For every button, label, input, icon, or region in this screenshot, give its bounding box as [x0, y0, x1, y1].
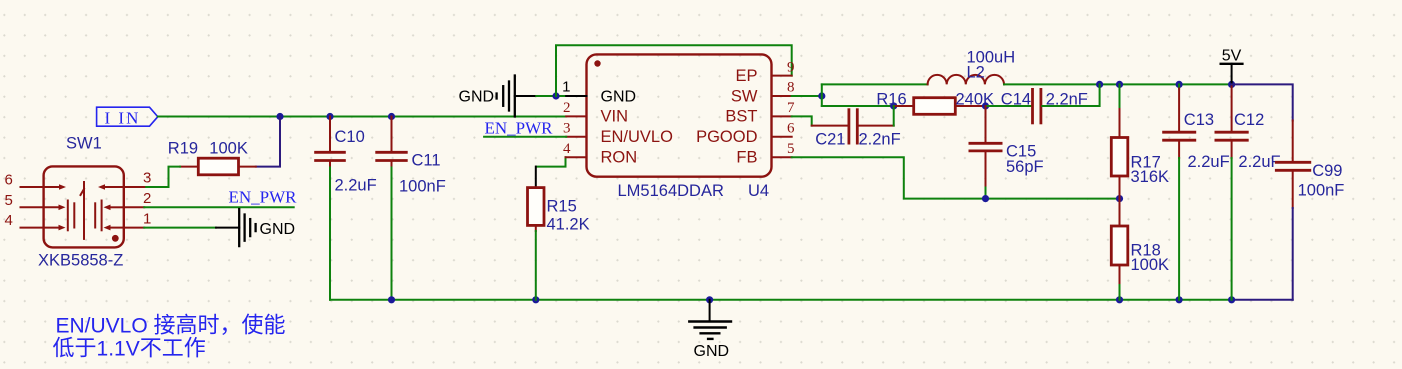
junction R18 bottom — [1116, 296, 1123, 303]
wire C13 bottom — [1178, 158, 1180, 300]
wire GND sym to pin1 — [536, 95, 566, 97]
svg-text:BST: BST — [725, 108, 757, 126]
pin 5 FB — [736, 141, 794, 167]
svg-text:100K: 100K — [1131, 256, 1170, 274]
power 5V — [1221, 48, 1243, 85]
svg-text:GND: GND — [694, 343, 730, 360]
svg-text:R19: R19 — [168, 139, 198, 157]
resistor R16 — [876, 90, 994, 114]
ground GND bottom — [689, 300, 731, 360]
inductor L2 — [928, 49, 1016, 85]
junction R17 top — [1116, 81, 1123, 88]
junction C14 riser top — [1096, 81, 1103, 88]
svg-text:U4: U4 — [748, 182, 769, 200]
capacitor C11 — [377, 117, 446, 196]
junction C12 bottom — [1228, 296, 1235, 303]
op-amp U4 LM5164DDAR body — [587, 54, 772, 200]
svg-text:C14: C14 — [1001, 91, 1031, 109]
svg-text:EN_PWR: EN_PWR — [229, 188, 298, 207]
junction GND bottom — [706, 296, 713, 303]
pin 3 EN/UVLO — [563, 121, 673, 147]
svg-text:6: 6 — [787, 121, 795, 137]
svg-text:XKB5858-Z: XKB5858-Z — [38, 252, 123, 270]
junction 5V / C12 top — [1228, 81, 1235, 88]
wire SW1 pin3 to R19 — [144, 167, 180, 187]
svg-text:100nF: 100nF — [399, 178, 446, 196]
capacitor C99 — [1276, 121, 1344, 209]
svg-text:2.2nF: 2.2nF — [859, 131, 901, 149]
svg-text:2.2nF: 2.2nF — [1046, 91, 1088, 109]
svg-text:C21: C21 — [815, 131, 845, 149]
ground sym at SW1 pin1 — [239, 209, 255, 246]
svg-text:GND: GND — [459, 89, 495, 106]
svg-text:EN/UVLO 接高时，使能: EN/UVLO 接高时，使能 — [56, 312, 286, 337]
bottom rail navy segment to C99 — [1232, 299, 1293, 301]
svg-text:316K: 316K — [1131, 168, 1170, 186]
svg-text:RON: RON — [601, 149, 638, 167]
svg-text:5: 5 — [5, 192, 13, 209]
svg-text:GND: GND — [260, 221, 296, 238]
svg-text:100nF: 100nF — [1298, 182, 1345, 200]
note text — [53, 312, 286, 360]
wire C10 bottom — [329, 168, 331, 300]
wire GND riser to EP — [556, 45, 792, 96]
svg-text:3: 3 — [563, 121, 571, 137]
svg-text:R15: R15 — [547, 198, 577, 216]
svg-text:100K: 100K — [209, 139, 248, 157]
svg-text:41.2K: 41.2K — [547, 216, 590, 234]
ground sym at U4 pin1 (GND) — [459, 76, 537, 117]
capacitor C12 — [1216, 84, 1281, 171]
junction R16 left — [890, 102, 897, 109]
resistor R18 — [1111, 199, 1169, 285]
svg-text:7: 7 — [787, 100, 795, 116]
wire EN_PWR stub to pin 3 — [484, 136, 566, 138]
wire C12 bottom — [1231, 158, 1233, 300]
resistor R15 — [528, 188, 590, 234]
wire C15 bottom to FB net — [985, 188, 987, 199]
svg-text:2.2uF: 2.2uF — [1188, 153, 1230, 171]
svg-text:EN/UVLO: EN/UVLO — [601, 128, 674, 146]
junction R17/R18 mid — [1116, 195, 1123, 202]
capacitor C15 — [970, 106, 1044, 188]
capacitor C21 — [792, 106, 901, 149]
capacitor C13 — [1164, 84, 1230, 171]
bottom rail (green) — [330, 299, 1232, 301]
capacitor C10 — [316, 117, 377, 195]
wire SW1 pin1 to GND — [144, 227, 239, 229]
wire 5V rail navy to C99 — [1232, 84, 1293, 120]
pin 2 VIN — [563, 100, 628, 126]
svg-text:1: 1 — [562, 79, 570, 96]
svg-text:6: 6 — [5, 172, 13, 189]
pin 8 SW — [731, 80, 795, 106]
svg-text:C13: C13 — [1184, 111, 1214, 129]
pin 7 BST — [725, 100, 795, 126]
junction at R19 riser — [276, 113, 283, 120]
svg-text:EN_PWR: EN_PWR — [485, 119, 554, 138]
wire L2 to 5V rail — [1004, 83, 1232, 85]
wire SW pin8 to rail — [792, 95, 822, 97]
svg-text:EP: EP — [735, 67, 757, 85]
junction at pin1 — [552, 92, 559, 99]
svg-text:2: 2 — [143, 190, 151, 207]
resistor R19 — [168, 139, 256, 175]
wire VIN net (I_IN to pin 2) — [158, 116, 566, 118]
wire C99 bottom navy — [1292, 208, 1294, 300]
capacitor C14 — [986, 84, 1100, 123]
wire EN_PWR stub from pin 2 — [144, 206, 294, 208]
junction R15 bottom — [532, 296, 539, 303]
svg-text:SW: SW — [731, 87, 758, 105]
junction C13 bottom — [1176, 296, 1183, 303]
pin 6 PGOOD — [696, 121, 795, 147]
junction R16 right / C15 top — [982, 102, 989, 109]
wire RON pin4 to R15 — [536, 157, 566, 187]
svg-text:I IN: I IN — [105, 109, 141, 128]
svg-text:C12: C12 — [1234, 111, 1264, 129]
junction C15 bottom — [982, 195, 989, 202]
svg-text:GND: GND — [601, 88, 637, 105]
svg-text:2: 2 — [563, 100, 571, 116]
svg-text:C11: C11 — [412, 152, 441, 170]
wire SW top rail to L2 — [822, 83, 928, 85]
pin 4 RON — [563, 141, 637, 167]
pin 9 EP — [735, 59, 794, 85]
svg-text:56pF: 56pF — [1006, 158, 1044, 176]
svg-text:L2: L2 — [967, 64, 985, 82]
junction at C11 top — [388, 113, 395, 120]
svg-text:5: 5 — [787, 141, 795, 157]
wire R18 bottom — [1119, 285, 1121, 300]
resistor R17 — [1111, 84, 1169, 198]
switch SW1 — [5, 135, 152, 270]
svg-text:5V: 5V — [1222, 48, 1242, 65]
svg-text:2.2uF: 2.2uF — [335, 177, 377, 195]
junction at C10 top — [326, 113, 333, 120]
svg-text:C10: C10 — [335, 128, 365, 146]
svg-text:9: 9 — [787, 59, 795, 75]
wire R15 bottom — [535, 231, 537, 300]
svg-text:3: 3 — [143, 170, 151, 187]
svg-text:8: 8 — [787, 80, 795, 96]
wire SW riser — [821, 84, 823, 106]
svg-text:低于1.1V不工作: 低于1.1V不工作 — [53, 335, 206, 360]
junction at pin8 — [818, 92, 825, 99]
svg-text:LM5164DDAR: LM5164DDAR — [618, 182, 724, 200]
svg-text:C99: C99 — [1312, 162, 1342, 180]
svg-text:4: 4 — [563, 141, 571, 157]
svg-text:SW1: SW1 — [66, 135, 102, 153]
wire pin8 junction down to R16 row — [822, 105, 894, 107]
svg-text:4: 4 — [5, 212, 13, 229]
svg-text:2.2uF: 2.2uF — [1238, 153, 1280, 171]
svg-text:VIN: VIN — [601, 108, 629, 126]
port I_IN — [97, 107, 158, 127]
junction C11 bottom — [388, 296, 395, 303]
svg-text:R16: R16 — [876, 90, 906, 108]
pin 1 GND — [562, 79, 636, 106]
svg-text:1: 1 — [143, 210, 151, 227]
wire FB net — [792, 157, 1120, 198]
svg-text:FB: FB — [736, 149, 757, 167]
wire R19 riser (navy) — [256, 117, 280, 167]
svg-text:PGOOD: PGOOD — [696, 128, 758, 146]
wire C11 bottom — [391, 168, 393, 300]
junction C13 top — [1176, 81, 1183, 88]
